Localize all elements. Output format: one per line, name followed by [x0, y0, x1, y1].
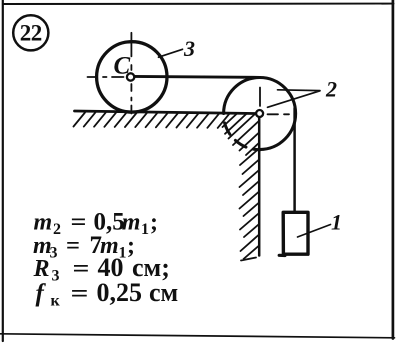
- svg-text:2: 2: [325, 77, 337, 102]
- cylinder 3 vertical centerline (dash-dot): [130, 33, 132, 114]
- leader line to label 3: [159, 49, 183, 57]
- page frame bottom: [0, 334, 395, 338]
- pulley 2 horizontal centerline dashes: [268, 113, 290, 115]
- pulley 2 vertical centerline dash: [259, 88, 261, 107]
- leader lines to label 2: [268, 90, 321, 108]
- svg-text:C: C: [114, 53, 131, 80]
- pulley 2 rim (solid part): [224, 78, 296, 150]
- table surface line: [75, 111, 260, 114]
- table surface hatching: [74, 113, 230, 128]
- table corner hatching: [223, 114, 259, 155]
- problem number badge circle: [13, 15, 48, 50]
- cylinder 3 horizontal centerline (dash-dot): [88, 76, 124, 78]
- cylinder 3 axle C: [127, 73, 134, 80]
- cylinder 3 body: [97, 42, 167, 112]
- page frame right: [392, 0, 395, 339]
- leader line to label 1: [298, 225, 331, 238]
- vertical rope to load 1: [293, 108, 296, 212]
- page frame left: [2, 0, 4, 341]
- svg-text:22: 22: [20, 20, 42, 45]
- table wall hatching: [240, 149, 259, 261]
- rope from axle C to pulley 2: [132, 76, 260, 77]
- svg-text:3: 3: [183, 36, 195, 61]
- pulley 2 axle: [256, 110, 263, 117]
- load 1 (hanging block): [283, 212, 308, 254]
- pulley 2 rim hidden part (dashed): [225, 123, 261, 150]
- load 1 bottom-left overshoot stroke: [279, 254, 285, 257]
- svg-text:1: 1: [331, 209, 342, 234]
- page frame top: [3, 3, 394, 5]
- given data line 1: m2 = 0,5 m1: [33, 209, 179, 310]
- table vertical edge (wall): [258, 115, 261, 256]
